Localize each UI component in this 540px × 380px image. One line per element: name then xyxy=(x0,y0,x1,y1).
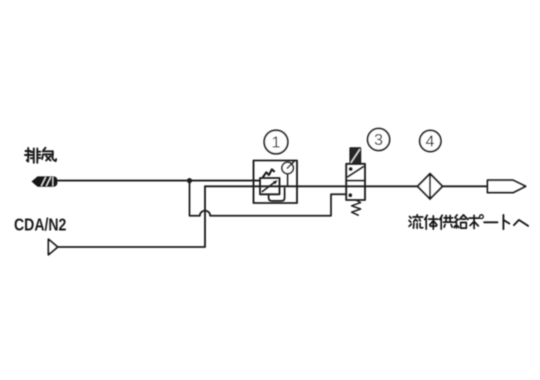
svg-text:1: 1 xyxy=(272,135,281,152)
svg-text:3: 3 xyxy=(374,132,383,149)
callout circle 1 xyxy=(264,130,288,154)
label: exhaust (haiki) xyxy=(25,148,56,163)
wire: exhaust branch continues to valve xyxy=(210,194,346,216)
wire: main supply line to filter xyxy=(205,185,418,187)
label: to fluid supply port (ryuutai kyoukyuu pooto e) xyxy=(409,215,528,229)
regulator unit enclosure box U1 xyxy=(254,161,298,204)
pressure gauge G1 xyxy=(282,161,295,187)
wire: CDA/N2 supply line with riser xyxy=(58,186,205,247)
solenoid actuator xyxy=(350,148,360,164)
junction node on exhaust line xyxy=(187,178,192,183)
valve return spring xyxy=(352,200,361,215)
valve lower position port dot xyxy=(349,193,353,197)
svg-text:4: 4 xyxy=(426,134,435,151)
callout circle 3 xyxy=(368,129,390,151)
valve upper position flow path xyxy=(348,167,364,177)
wire hop over CDA riser xyxy=(200,211,210,216)
wire: exhaust line to regulator xyxy=(57,180,260,182)
wire: exhaust branch down and over to valve exhaust port xyxy=(190,181,200,216)
regulator relief loop xyxy=(269,188,285,201)
wire: filter to supply port arrow xyxy=(442,185,487,187)
callout circle 4 xyxy=(420,130,441,151)
regulator adjusting spring xyxy=(263,169,274,177)
solenoid valve V1: body xyxy=(346,164,365,200)
regulator flow arrow xyxy=(262,180,277,191)
valve position divider xyxy=(346,180,365,182)
svg-text:CDA/N2: CDA/N2 xyxy=(14,216,66,235)
CDA/N2 source triangle xyxy=(48,239,57,255)
filter F1 (diamond) xyxy=(418,174,443,199)
silencer / muffler on exhaust line xyxy=(32,176,58,186)
regulator R: body square xyxy=(260,178,280,194)
supply port arrow symbol xyxy=(488,180,526,192)
